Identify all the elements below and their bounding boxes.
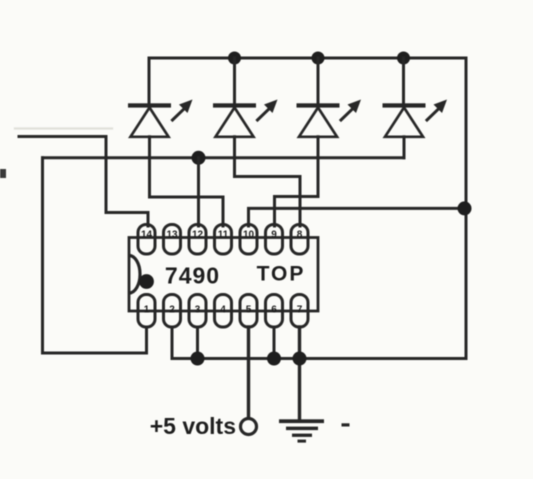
wire QA feedback line <box>43 156 405 159</box>
wire LED3 anode-top <box>317 58 320 104</box>
wire input-A from left <box>19 137 148 227</box>
pin 8 <box>291 225 308 255</box>
wire pin6 stub <box>273 327 276 359</box>
wire top supply rail <box>149 58 466 104</box>
wire pin10 to right ground line <box>249 208 467 226</box>
svg-text:4: 4 <box>220 305 226 316</box>
left edge mark <box>0 169 6 178</box>
svg-text:7490: 7490 <box>165 263 220 289</box>
pin 6 <box>266 295 283 328</box>
svg-text:8: 8 <box>297 230 303 241</box>
LED D4 <box>383 100 448 137</box>
wire node to pin12 <box>197 158 200 226</box>
pin 11 <box>215 225 232 255</box>
IC notch <box>129 256 140 294</box>
ground symbol <box>279 419 324 442</box>
svg-text:12: 12 <box>192 230 204 241</box>
svg-text:11: 11 <box>218 230 229 241</box>
wire pin1 bottom stub <box>145 327 148 353</box>
svg-text:1: 1 <box>144 305 150 316</box>
node rail-LED3 <box>312 52 325 65</box>
pin 13 <box>164 225 181 255</box>
pin 1 <box>138 295 155 328</box>
svg-text:7: 7 <box>297 305 303 316</box>
node rail-LED2 <box>228 52 241 65</box>
wire LED1 to pin11 <box>150 137 224 226</box>
pin 5 <box>240 295 257 328</box>
node bus-pin3 <box>191 352 205 366</box>
wire LED2 anode-top <box>233 58 236 104</box>
svg-text:14: 14 <box>141 230 153 241</box>
wire LED3 to pin9 <box>275 137 319 226</box>
wire bottom ground bus <box>172 327 466 359</box>
pin numbers bottom <box>144 305 303 316</box>
wire pin5 to +5V terminal <box>247 327 250 418</box>
svg-text:+5 volts: +5 volts <box>150 413 236 439</box>
pin 3 <box>189 295 206 328</box>
svg-text:2: 2 <box>169 305 175 316</box>
faint scan artifact line <box>15 127 112 129</box>
wire left loop to pin1 <box>43 158 147 353</box>
svg-text:3: 3 <box>195 305 201 316</box>
+5V terminal circle <box>241 419 257 435</box>
LED D1 <box>128 100 193 137</box>
IC U1 7490 body <box>129 238 318 312</box>
pin 14 <box>138 225 155 255</box>
svg-text:5: 5 <box>246 305 252 316</box>
node rail-LED4 <box>397 52 410 65</box>
wire pin7 to ground symbol <box>298 327 301 421</box>
pin numbers top <box>141 230 303 241</box>
pin 4 <box>215 295 232 328</box>
wire right vertical <box>465 58 468 359</box>
svg-text:TOP: TOP <box>257 263 306 286</box>
LED D2 <box>213 100 278 137</box>
pins bottom row (1..7) <box>138 295 308 328</box>
node bus-pin7 <box>293 352 307 366</box>
svg-text:10: 10 <box>243 230 255 241</box>
pins top row (14..8) <box>138 225 308 255</box>
minus label <box>342 423 350 426</box>
pin 12 <box>189 225 206 255</box>
wire LED4 down <box>403 137 406 158</box>
wire pin3 stub <box>196 327 199 359</box>
IC pin1 indicator dot <box>139 274 154 289</box>
node bus-pin6 <box>267 352 281 366</box>
pin 9 <box>266 225 283 255</box>
wire LED4 anode-top <box>402 58 405 104</box>
node QA-pin12 <box>192 151 206 165</box>
LED D3 <box>297 100 362 137</box>
svg-text:9: 9 <box>271 230 277 241</box>
svg-text:6: 6 <box>271 305 277 316</box>
wire LED2 to pin8 <box>235 137 301 226</box>
svg-text:13: 13 <box>166 230 178 241</box>
pin 10 <box>240 225 257 255</box>
node right ground <box>458 201 472 215</box>
pin 2 <box>164 295 181 328</box>
pin 7 <box>291 295 308 328</box>
